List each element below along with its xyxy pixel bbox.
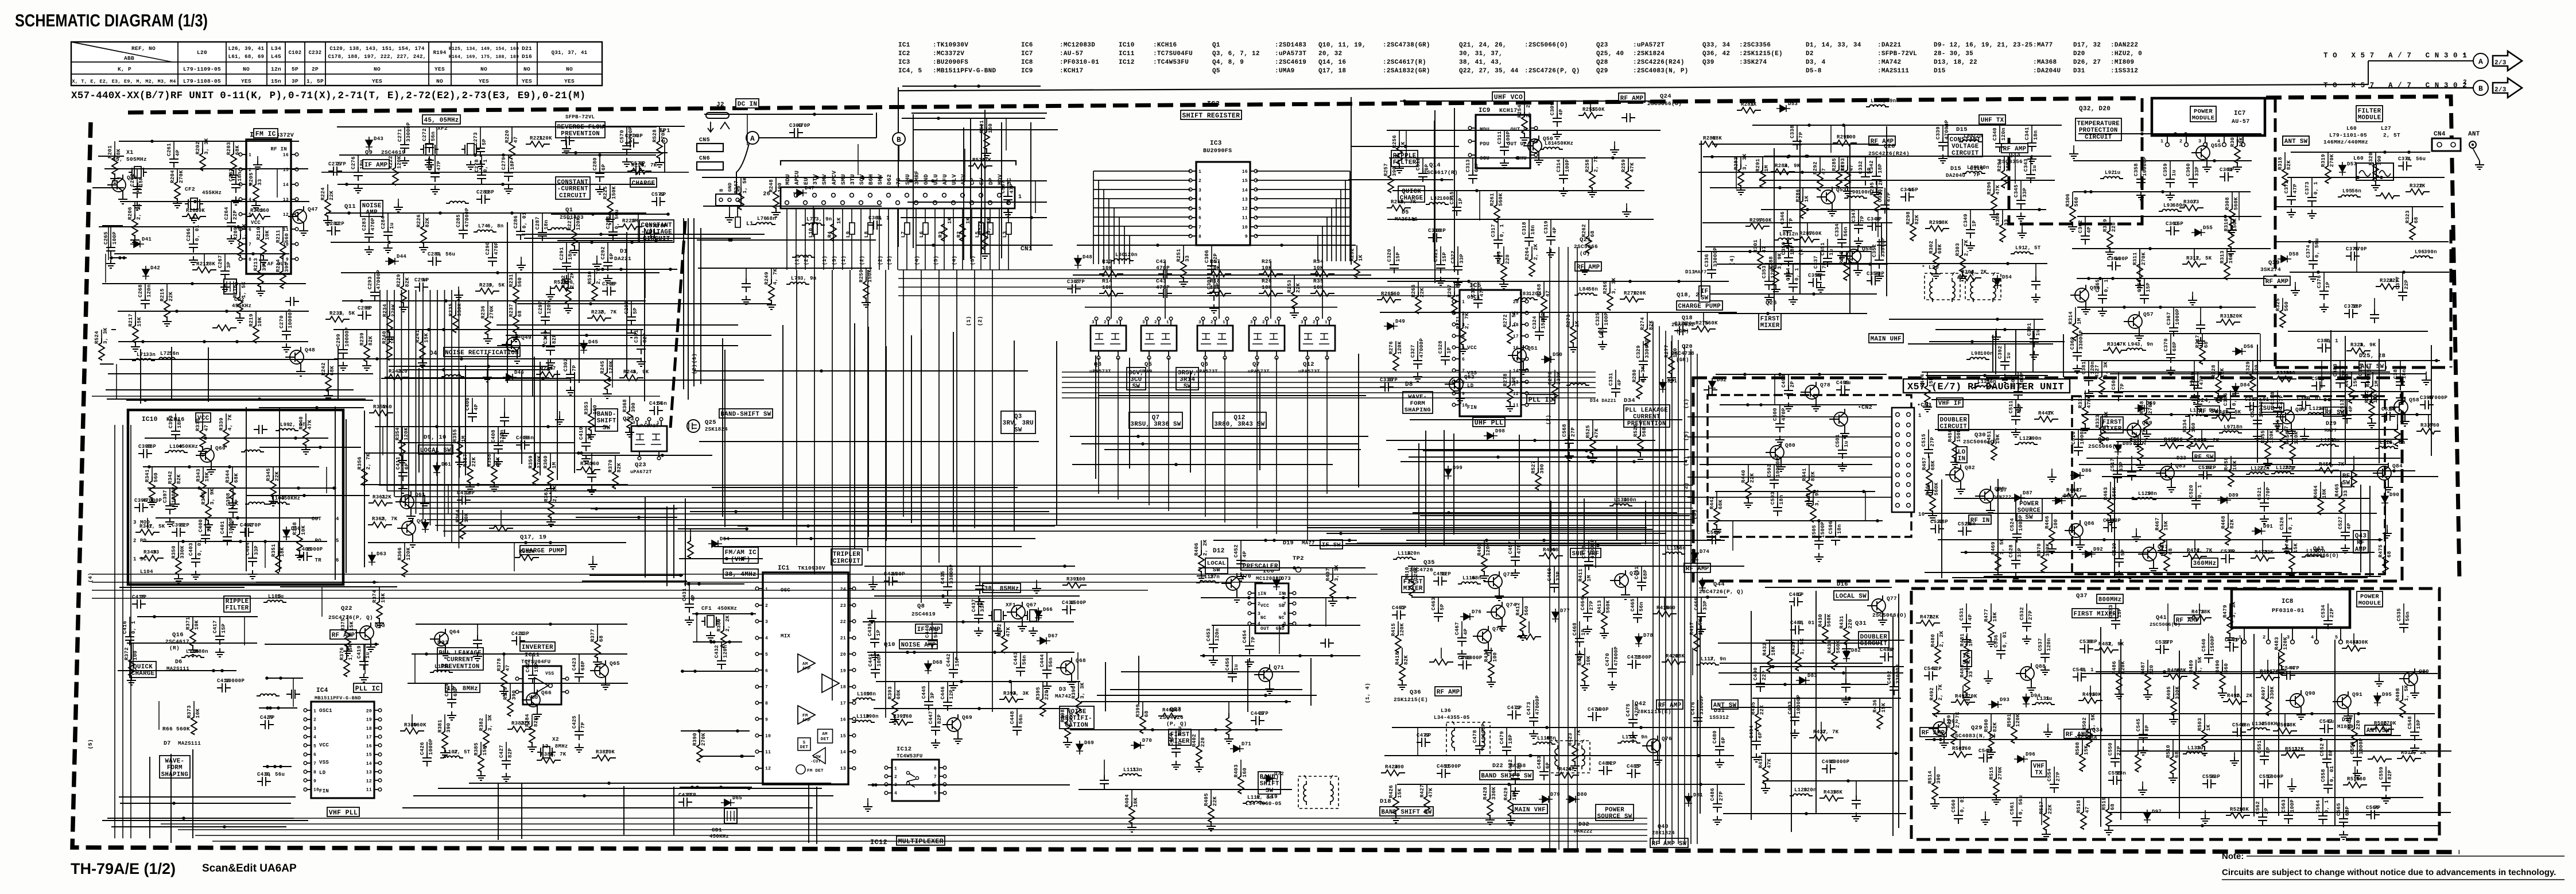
label CHARGE PUMP bbox=[1677, 301, 1722, 310]
svg-text::2SK1824: :2SK1824 bbox=[1633, 51, 1665, 57]
svg-text:6P: 6P bbox=[1545, 762, 1551, 769]
capacitor C447 bbox=[931, 722, 940, 736]
wire bbox=[582, 580, 687, 582]
resistor R477 bbox=[1988, 616, 1994, 638]
wire bbox=[1121, 671, 1299, 672]
svg-text:FM: FM bbox=[802, 714, 808, 718]
svg-text:GND: GND bbox=[924, 174, 930, 185]
svg-text:R485: R485 bbox=[1960, 664, 1965, 678]
svg-text:16: 16 bbox=[840, 718, 846, 723]
capacitor C466 bbox=[1697, 608, 1706, 622]
wire bbox=[119, 587, 245, 588]
transistor Q62 bbox=[402, 521, 416, 535]
svg-text:R505: R505 bbox=[2347, 717, 2353, 730]
resistor R267 bbox=[1452, 292, 1457, 314]
svg-text:5: 5 bbox=[765, 652, 768, 657]
capacitor C454 bbox=[1245, 641, 1254, 655]
svg-text:82K: 82K bbox=[1810, 471, 1816, 481]
resistor R347 bbox=[135, 529, 160, 535]
svg-text:NC: NC bbox=[1279, 616, 1285, 621]
inductor L119 bbox=[1617, 741, 1640, 744]
svg-text:R438: R438 bbox=[1758, 755, 1764, 768]
svg-text:Q60: Q60 bbox=[215, 445, 226, 451]
inductor L81 bbox=[1540, 148, 1563, 149]
wire bbox=[1550, 501, 1551, 548]
resistor R288 bbox=[1773, 264, 1779, 285]
svg-text:MDU: MDU bbox=[785, 174, 792, 185]
svg-text:Circuits are subject to change: Circuits are subject to change without n… bbox=[2222, 868, 2556, 877]
svg-text:C411: C411 bbox=[395, 456, 401, 470]
wire bbox=[517, 303, 771, 304]
ground bbox=[2387, 525, 2388, 529]
svg-text:R399: R399 bbox=[1135, 704, 1141, 717]
svg-text:C419: C419 bbox=[356, 645, 362, 659]
wire bbox=[514, 543, 515, 571]
diode D60 bbox=[283, 527, 290, 540]
svg-text:R340: R340 bbox=[298, 416, 304, 429]
resistor R357 bbox=[467, 461, 473, 483]
svg-text:TC4W53FU: TC4W53FU bbox=[897, 753, 923, 759]
svg-text:15K: 15K bbox=[495, 457, 501, 467]
svg-text:C359: C359 bbox=[2163, 163, 2168, 176]
transistor Q12 bbox=[1299, 326, 1335, 351]
svg-text::2SD1483: :2SD1483 bbox=[1275, 42, 1306, 49]
resistor R313 bbox=[2224, 258, 2230, 280]
svg-text:C314: C314 bbox=[1556, 159, 1562, 172]
resistor R460 bbox=[2351, 465, 2357, 487]
svg-text:10K: 10K bbox=[605, 749, 615, 755]
svg-text:C435: C435 bbox=[940, 571, 946, 584]
svg-text:Q30: Q30 bbox=[1974, 432, 1986, 439]
inductor L87 bbox=[1775, 238, 1798, 241]
svg-text:150K: 150K bbox=[1956, 429, 1962, 442]
svg-text:390: 390 bbox=[1539, 464, 1545, 474]
svg-text:VHF IF: VHF IF bbox=[1938, 400, 1962, 407]
svg-text:C540: C540 bbox=[2201, 638, 2207, 652]
resistor R287 bbox=[1795, 237, 1820, 242]
capacitor C446 bbox=[943, 697, 952, 711]
resistor R276 bbox=[1393, 349, 1399, 370]
capacitor C517 bbox=[2113, 469, 2122, 483]
svg-text:D12: D12 bbox=[1213, 548, 1225, 555]
svg-text:C558: C558 bbox=[2321, 769, 2326, 782]
label RF AMP bbox=[1575, 262, 1601, 271]
svg-text:SHAPING: SHAPING bbox=[161, 771, 188, 778]
wire bbox=[1849, 145, 1850, 314]
svg-text:Q75: Q75 bbox=[1492, 626, 1503, 632]
label RIPPLE bbox=[224, 596, 250, 612]
svg-text:D50: D50 bbox=[1553, 352, 1562, 358]
capacitor C324 bbox=[1535, 327, 1544, 340]
svg-text:R277: R277 bbox=[1664, 345, 1670, 358]
svg-text:C349: C349 bbox=[1963, 214, 1969, 227]
capacitor C313 bbox=[1468, 170, 1477, 184]
svg-text:C276: C276 bbox=[351, 156, 356, 169]
resistor R246 bbox=[619, 375, 643, 381]
capacitor C380 bbox=[2317, 343, 2331, 353]
svg-text:R209: R209 bbox=[233, 227, 239, 240]
capacitor C370 bbox=[2166, 349, 2175, 363]
svg-text:R227: R227 bbox=[567, 217, 573, 230]
svg-text:22K: 22K bbox=[1212, 796, 1218, 806]
svg-text:D7: D7 bbox=[164, 741, 171, 747]
wire bus CN1 verticals bbox=[379, 290, 381, 485]
svg-text:270K: 270K bbox=[391, 304, 397, 317]
svg-text:120K: 120K bbox=[1633, 291, 1646, 296]
IC12 TC4W53FU multiplexer bbox=[892, 760, 939, 801]
svg-text:•CN2: •CN2 bbox=[1858, 405, 1872, 411]
svg-text:22P: 22P bbox=[1213, 253, 1219, 263]
capacitor C421 bbox=[511, 636, 525, 645]
svg-text:R240: R240 bbox=[382, 331, 387, 344]
svg-text:CIRCUIT: CIRCUIT bbox=[2085, 134, 2112, 141]
svg-text:10000P: 10000P bbox=[2259, 397, 2264, 417]
svg-text:2SC4617: 2SC4617 bbox=[165, 638, 189, 645]
svg-text:R327: R327 bbox=[2094, 365, 2100, 378]
resistor R371 bbox=[190, 624, 196, 646]
svg-text:Q67: Q67 bbox=[1026, 602, 1037, 608]
transistor pack Q23 bbox=[631, 426, 667, 451]
wire bbox=[1380, 312, 1737, 313]
wire bbox=[2073, 160, 2252, 161]
svg-text:68n: 68n bbox=[1546, 736, 1556, 741]
wire bbox=[126, 400, 373, 401]
svg-text:12P: 12P bbox=[335, 221, 344, 227]
capacitor C379 bbox=[2370, 309, 2379, 323]
svg-text:DOUBLER: DOUBLER bbox=[1940, 417, 1968, 424]
wire bbox=[644, 228, 645, 401]
wire bbox=[246, 407, 247, 571]
svg-text:C537: C537 bbox=[2038, 638, 2043, 651]
capacitor C274 bbox=[625, 138, 639, 148]
resistor R292 bbox=[1817, 169, 1823, 191]
svg-text:R368: R368 bbox=[622, 399, 628, 412]
svg-text:R350: R350 bbox=[171, 545, 177, 559]
wire bbox=[2321, 361, 2322, 388]
svg-text:270K: 270K bbox=[537, 455, 542, 469]
wire bbox=[1774, 148, 1775, 311]
svg-text:33000P: 33000P bbox=[1895, 664, 1901, 684]
svg-text:C329: C329 bbox=[1636, 345, 1642, 358]
capacitor C294 bbox=[414, 282, 428, 292]
svg-text:C367: C367 bbox=[2166, 312, 2172, 325]
diode D86 bbox=[2070, 472, 2084, 479]
svg-text::HZU2, 0: :HZU2, 0 bbox=[2111, 51, 2142, 57]
component cluster 25 bbox=[629, 396, 630, 410]
svg-text:L84: L84 bbox=[1579, 287, 1589, 292]
resistor R478 bbox=[2187, 615, 2212, 621]
svg-text:R374: R374 bbox=[372, 590, 378, 603]
wire bbox=[100, 363, 114, 365]
capacitor C316 bbox=[1428, 233, 1442, 242]
capacitor C473 bbox=[1529, 713, 1538, 726]
resistor R353 bbox=[588, 409, 594, 431]
svg-text:47: 47 bbox=[1821, 168, 1827, 175]
svg-text:47: 47 bbox=[513, 137, 519, 143]
svg-text:2, 7K: 2, 7K bbox=[1822, 729, 1839, 735]
svg-text:L80: L80 bbox=[1115, 252, 1125, 258]
svg-text:Q39: Q39 bbox=[2268, 260, 2280, 266]
svg-text:R266: R266 bbox=[1411, 284, 1417, 297]
svg-text:D45: D45 bbox=[588, 339, 598, 345]
resistor R516 bbox=[2343, 782, 2367, 788]
svg-text:(4): (4) bbox=[1729, 255, 1735, 265]
svg-text:C424: C424 bbox=[444, 683, 450, 696]
wire bus lower horizontals bbox=[143, 818, 1647, 819]
svg-text:6: 6 bbox=[1462, 357, 1465, 362]
svg-text:68K: 68K bbox=[2177, 668, 2186, 674]
resistor R434 bbox=[1832, 648, 1837, 669]
svg-text:7P: 7P bbox=[580, 722, 586, 729]
svg-text:17: 17 bbox=[840, 701, 846, 706]
svg-text:Q52: Q52 bbox=[1464, 374, 1475, 380]
wire bbox=[107, 398, 366, 400]
resistor R492 bbox=[1934, 695, 1939, 717]
svg-text:18K: 18K bbox=[2322, 489, 2327, 498]
transistor Q76 bbox=[1647, 739, 1661, 753]
svg-text:C308: C308 bbox=[1206, 276, 1212, 289]
diode D61 bbox=[433, 462, 440, 476]
wire bbox=[121, 201, 309, 202]
diode D74 bbox=[1692, 549, 1698, 563]
resistor R382 bbox=[483, 725, 489, 747]
transistor Q55 bbox=[2196, 146, 2210, 160]
svg-text::MA77: :MA77 bbox=[2033, 42, 2053, 49]
resistor R277 bbox=[1669, 352, 1674, 374]
resistor R220 bbox=[509, 137, 515, 159]
capacitor C510 bbox=[2311, 381, 2325, 390]
capacitor C314 bbox=[1559, 170, 1568, 184]
svg-text:1, 5K: 1, 5K bbox=[242, 223, 247, 240]
wire bbox=[907, 202, 1047, 203]
svg-text:3, 3K: 3, 3K bbox=[2231, 601, 2237, 618]
resistor R221 bbox=[526, 141, 550, 147]
capacitor C346 bbox=[1783, 222, 1792, 236]
resistor R511 bbox=[2281, 752, 2305, 758]
svg-text:R263: R263 bbox=[1496, 251, 1502, 264]
wire bbox=[1716, 374, 1887, 375]
svg-text:C262: C262 bbox=[130, 173, 135, 187]
svg-text:C564: C564 bbox=[2315, 800, 2321, 813]
resistor R455 bbox=[2265, 438, 2271, 459]
inductor L135 bbox=[548, 228, 571, 230]
resistor R326 bbox=[2346, 348, 2371, 354]
CN4 connector bbox=[2432, 138, 2461, 151]
label SUB VHF bbox=[1570, 548, 1601, 558]
wire bbox=[1310, 658, 1312, 706]
label BAND) bbox=[1258, 772, 1281, 794]
resistor R410 bbox=[1409, 574, 1415, 596]
resistor R403 bbox=[1238, 772, 1244, 794]
svg-text:Q26: Q26 bbox=[1766, 300, 1777, 307]
svg-text:R4: R4 bbox=[827, 231, 833, 238]
svg-text:Q36: Q36 bbox=[1410, 689, 1421, 696]
wire bbox=[1736, 157, 1737, 189]
diode D82 bbox=[1843, 648, 1850, 662]
svg-text:C338: C338 bbox=[1790, 125, 1795, 138]
svg-text:330K: 330K bbox=[2045, 543, 2051, 556]
svg-text:270K: 270K bbox=[2383, 721, 2396, 726]
svg-text:C293: C293 bbox=[367, 276, 373, 289]
svg-text:C425: C425 bbox=[572, 715, 577, 729]
svg-text:10K: 10K bbox=[257, 317, 263, 327]
svg-text:R408: R408 bbox=[1477, 543, 1483, 556]
svg-text:11: 11 bbox=[1242, 216, 1248, 221]
svg-text:15P: 15P bbox=[138, 177, 144, 187]
svg-text:C232: C232 bbox=[309, 50, 322, 56]
svg-text:18: 18 bbox=[840, 685, 846, 690]
svg-text:POWER: POWER bbox=[1605, 807, 1624, 814]
svg-text:C443: C443 bbox=[1013, 652, 1019, 665]
svg-text:1K: 1K bbox=[1750, 102, 1757, 107]
svg-text:3, 3K: 3, 3K bbox=[103, 327, 108, 344]
svg-text:18K: 18K bbox=[205, 261, 215, 267]
svg-text:560K: 560K bbox=[413, 722, 426, 728]
wire bbox=[507, 222, 508, 383]
svg-text:Q22, 27, 35, 44: Q22, 27, 35, 44 bbox=[1459, 68, 1519, 75]
svg-text:2, 7K: 2, 7K bbox=[2142, 428, 2147, 445]
diode D41 bbox=[130, 241, 144, 247]
svg-text:21: 21 bbox=[840, 636, 846, 641]
resistor R264 bbox=[1529, 254, 1535, 276]
svg-text:Q12: Q12 bbox=[1233, 415, 1245, 421]
ground bbox=[871, 610, 872, 614]
svg-text:120K: 120K bbox=[1413, 567, 1419, 580]
svg-text:AM: AM bbox=[802, 662, 808, 667]
wire bbox=[1751, 611, 1752, 820]
svg-text:2, 2K: 2, 2K bbox=[1202, 539, 1208, 556]
capacitor C284 bbox=[383, 227, 393, 241]
svg-text:47: 47 bbox=[1568, 767, 1574, 772]
svg-text:3P: 3P bbox=[226, 261, 232, 268]
svg-text:C360: C360 bbox=[2186, 163, 2191, 176]
wire bbox=[1720, 663, 1883, 664]
svg-text:C535: C535 bbox=[2396, 608, 2402, 621]
svg-text:560: 560 bbox=[1666, 605, 1675, 611]
wire bbox=[337, 347, 339, 399]
svg-text:R392: R392 bbox=[997, 624, 1003, 637]
svg-text:DAN222: DAN222 bbox=[1993, 494, 2011, 500]
resistor R222 bbox=[393, 163, 398, 185]
capacitor C485 bbox=[1627, 769, 1640, 778]
wire bbox=[1926, 375, 2048, 376]
capacitor C411 bbox=[398, 467, 408, 481]
svg-text:Q6: Q6 bbox=[1201, 361, 1208, 368]
wire bbox=[2102, 476, 2438, 477]
capacitor C502 bbox=[1770, 475, 1779, 489]
svg-text:L7: L7 bbox=[901, 231, 906, 238]
resistor R260 bbox=[1387, 205, 1411, 211]
svg-text:3: 3 bbox=[1198, 188, 1201, 193]
wire bbox=[744, 370, 1012, 371]
svg-text:15K: 15K bbox=[424, 333, 429, 343]
svg-text:Q63: Q63 bbox=[375, 622, 385, 629]
wire bbox=[1351, 97, 1352, 265]
wire bbox=[1326, 533, 1666, 534]
wire bbox=[2120, 639, 2121, 820]
wire bbox=[326, 212, 646, 214]
svg-text:1SS312: 1SS312 bbox=[1709, 715, 1729, 721]
svg-text:R524: R524 bbox=[94, 331, 100, 344]
capacitor C467 bbox=[1457, 633, 1467, 647]
resistor R466 bbox=[2049, 523, 2055, 545]
svg-text:120n: 120n bbox=[1803, 787, 1817, 793]
svg-text:680n: 680n bbox=[195, 649, 208, 655]
svg-text::DA204U: :DA204U bbox=[2033, 68, 2061, 75]
wire bbox=[2139, 249, 2140, 277]
svg-text:15P: 15P bbox=[2117, 608, 2123, 618]
svg-text:VCC: VCC bbox=[251, 220, 261, 226]
svg-text:Q17, 19: Q17, 19 bbox=[520, 534, 546, 541]
resistor R239 bbox=[364, 340, 370, 362]
svg-text:C467: C467 bbox=[1454, 622, 1460, 635]
svg-text:16: 16 bbox=[283, 153, 289, 158]
resistor R507 bbox=[1948, 752, 1972, 757]
svg-text::MA2S111: :MA2S111 bbox=[1877, 68, 1909, 75]
svg-text:R279: R279 bbox=[1547, 371, 1553, 385]
wire bbox=[911, 335, 912, 523]
svg-text:R331: R331 bbox=[2078, 395, 2084, 408]
resistor R505 bbox=[2352, 724, 2357, 746]
svg-text:14: 14 bbox=[366, 761, 372, 767]
wire bbox=[1925, 739, 2422, 740]
capacitor C555 bbox=[2108, 776, 2122, 785]
svg-text:100P: 100P bbox=[876, 653, 882, 667]
svg-text:120n: 120n bbox=[1407, 551, 1420, 556]
svg-text:4P: 4P bbox=[2086, 226, 2092, 233]
svg-text:R427: R427 bbox=[1419, 784, 1425, 798]
wire bbox=[814, 208, 815, 270]
capacitor C496 bbox=[1852, 795, 1861, 809]
svg-text:R257: R257 bbox=[1383, 163, 1389, 176]
capacitor C321 bbox=[1436, 260, 1445, 273]
wire bbox=[2369, 486, 2371, 577]
capacitor C357 bbox=[2031, 276, 2040, 290]
svg-text:15K: 15K bbox=[2084, 745, 2089, 755]
wire bbox=[1941, 479, 1942, 578]
resistor R362 bbox=[548, 496, 554, 518]
svg-text:C354: C354 bbox=[1786, 268, 1791, 281]
svg-text:56n: 56n bbox=[430, 131, 436, 141]
svg-text:1: 1 bbox=[765, 587, 768, 592]
resistor R253 bbox=[1291, 287, 1297, 309]
svg-text:390: 390 bbox=[446, 723, 452, 733]
svg-text:D79: D79 bbox=[1550, 792, 1560, 798]
svg-text:R296: R296 bbox=[1987, 181, 1992, 195]
svg-text:R319: R319 bbox=[2321, 154, 2326, 167]
capacitor C403 bbox=[191, 554, 200, 567]
resistor R451 bbox=[1991, 438, 1997, 460]
svg-text:R346: R346 bbox=[201, 491, 207, 505]
svg-text:2P: 2P bbox=[312, 66, 319, 72]
wire bbox=[1078, 789, 1292, 790]
wire bbox=[2360, 485, 2361, 572]
resistor R212 bbox=[192, 267, 216, 273]
svg-text:1, 5K: 1, 5K bbox=[1698, 618, 1704, 635]
svg-text:470P: 470P bbox=[797, 123, 810, 129]
svg-text:C444: C444 bbox=[1039, 654, 1045, 667]
wire bbox=[1616, 446, 1617, 541]
resistor R258 bbox=[1589, 167, 1595, 188]
svg-text:4: 4 bbox=[313, 735, 316, 740]
diode D96 bbox=[2014, 756, 2028, 763]
wire bbox=[360, 484, 628, 485]
inductor L93 bbox=[2159, 210, 2182, 212]
svg-text:C397: C397 bbox=[162, 490, 168, 503]
svg-text:L60: L60 bbox=[2353, 155, 2364, 161]
svg-text:330K: 330K bbox=[2355, 640, 2368, 645]
svg-text:R403: R403 bbox=[1233, 764, 1239, 777]
